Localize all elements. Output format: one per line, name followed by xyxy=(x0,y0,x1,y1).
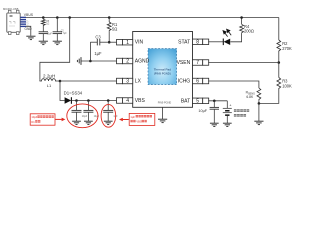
svg-text:10µF: 10µF xyxy=(198,109,207,113)
resistor R4 xyxy=(240,24,244,33)
node LX junction xyxy=(59,80,62,83)
wire rail to C2 xyxy=(56,18,58,32)
svg-text:1Ω: 1Ω xyxy=(46,24,49,26)
wire Rsense to sense node xyxy=(258,101,260,104)
svg-text:STAT: STAT xyxy=(178,39,190,45)
node VSEN junction xyxy=(278,61,281,64)
wire C3 left lead xyxy=(90,41,97,43)
svg-text:2.2µH: 2.2µH xyxy=(43,74,55,79)
svg-text:270K: 270K xyxy=(282,46,292,51)
wire rail corner down to R2 xyxy=(278,18,280,41)
wire C2 to ground xyxy=(56,34,58,41)
svg-text:VIN: VIN xyxy=(135,40,144,46)
svg-text:VBS: VBS xyxy=(135,98,146,104)
ground (C2) xyxy=(53,41,62,44)
resistor R5 (input) xyxy=(41,19,45,26)
svg-text:D1: D1 xyxy=(31,120,35,124)
diode D1 SS34 xyxy=(65,97,72,103)
pin 7 VSEN xyxy=(193,60,203,66)
ground (USB) xyxy=(26,36,35,39)
resistor R1 5ohm xyxy=(107,22,111,31)
wire capacitor C6 1uF to ground xyxy=(107,112,109,121)
pin 2 AGND xyxy=(117,58,123,64)
wire battery - to ground xyxy=(226,116,228,123)
svg-text:1: 1 xyxy=(126,40,129,46)
ground (AGND, sideways) xyxy=(77,57,81,65)
connector J1 inner marks xyxy=(10,15,13,17)
svg-text:+: + xyxy=(229,104,231,108)
wire rail to R4 xyxy=(241,18,243,25)
wire C1 to ground xyxy=(42,34,44,41)
wire USB GND to ground xyxy=(26,26,31,36)
svg-text:LX: LX xyxy=(135,79,142,85)
svg-text:200Ω: 200Ω xyxy=(244,28,254,33)
red arrow right box pointing left xyxy=(123,119,129,121)
wire to C7 xyxy=(213,101,215,107)
red ellipse around C4 C5 xyxy=(67,104,98,128)
capacitor C6 1uF xyxy=(103,110,113,112)
svg-text:2: 2 xyxy=(126,59,129,65)
junction rail/L1 column xyxy=(68,16,71,19)
wire to capacitor C5 10uF xyxy=(87,101,89,111)
svg-text:VSEN: VSEN xyxy=(177,60,191,66)
junction rail/R1 xyxy=(108,16,111,19)
wire R3 to sense node xyxy=(259,90,279,104)
svg-text:D1=SS34: D1=SS34 xyxy=(64,90,83,95)
wire rail to R1 xyxy=(108,18,110,23)
ground (C7) xyxy=(210,123,219,126)
ground (capacitor C6 1uF) xyxy=(104,121,113,124)
svg-text:8: 8 xyxy=(196,39,199,45)
connector J1 micro-USB body xyxy=(7,13,20,32)
wire R5 to C1 xyxy=(42,26,44,32)
junction capacitor C6 1uF xyxy=(107,99,110,102)
svg-text:L1: L1 xyxy=(47,83,52,88)
svg-text:3: 3 xyxy=(126,79,129,85)
wire rail to R5 xyxy=(42,18,44,20)
ground (battery) xyxy=(223,123,232,126)
svg-text:10µF: 10µF xyxy=(94,115,100,118)
pin 1 VIN xyxy=(117,39,123,45)
ground (C1) xyxy=(39,41,48,44)
wire LED to R4 xyxy=(230,34,241,42)
battery note text (CJK) xyxy=(234,109,237,112)
capacitor C4 10uF xyxy=(72,110,82,112)
wire capacitor C4 10uF to ground xyxy=(76,112,78,121)
LED D2 xyxy=(222,39,224,46)
wire C7 to ground xyxy=(213,109,215,123)
red note box: 1uF cap close to VBS pin xyxy=(129,113,155,125)
ground (capacitor C4 10uF) xyxy=(72,121,81,124)
svg-text:5: 5 xyxy=(196,98,199,104)
junction capacitor C4 10uF xyxy=(75,99,78,102)
pin 8 STAT xyxy=(193,39,203,45)
battery cells xyxy=(223,108,232,116)
wire AGND to pin2 xyxy=(81,60,117,62)
svg-text:VBS: VBS xyxy=(136,120,141,124)
svg-text:10µF: 10µF xyxy=(47,33,53,35)
capacitor C1 xyxy=(39,32,48,34)
pin 5 BAT xyxy=(193,98,203,104)
svg-text:6: 6 xyxy=(196,79,199,85)
resistor R3 100K xyxy=(277,78,281,90)
connector J1 pins (blue) xyxy=(20,17,26,18)
ground (sense) xyxy=(254,121,263,124)
resistor R2 270K xyxy=(277,40,281,52)
svg-text:4.7µF: 4.7µF xyxy=(61,33,68,35)
wire L1 to LX node xyxy=(57,80,60,82)
wire sense node to ground xyxy=(258,103,260,121)
wire IC PGND to ground xyxy=(162,107,164,119)
svg-text:4: 4 xyxy=(126,98,129,104)
svg-text:VBUS: VBUS xyxy=(24,13,34,17)
wire rail elbow to L1 xyxy=(40,18,70,80)
wire R2 to VSEN node xyxy=(278,52,280,63)
junction rail/C1 column xyxy=(42,16,45,19)
wire pin8 to LED xyxy=(208,41,223,43)
svg-text:C3: C3 xyxy=(95,34,101,39)
wire LX node down to D1 anode xyxy=(60,81,65,101)
capacitor C2 xyxy=(53,32,62,34)
wire BAT to battery + xyxy=(226,101,228,109)
svg-text:BAT: BAT xyxy=(181,98,190,104)
node VIN junction xyxy=(108,41,111,44)
wire R1 to VIN node xyxy=(108,31,110,42)
junction BAT/C7 xyxy=(213,100,216,103)
junction rail/C2 column xyxy=(56,16,59,19)
wire pin5 BAT rail xyxy=(208,100,227,102)
capacitor C7 10uF xyxy=(210,107,219,109)
resistor Rsense 6.8K xyxy=(257,88,261,101)
wire pin7 to VSEN node xyxy=(208,62,279,64)
wire to capacitor C6 1uF xyxy=(107,101,109,111)
svg-text:AGND: AGND xyxy=(135,59,150,65)
junction capacitor C5 10uF xyxy=(87,99,90,102)
wire C3 down to AGND net xyxy=(89,42,91,61)
svg-text:(PIN9 PGND): (PIN9 PGND) xyxy=(154,72,171,76)
svg-text:10µF: 10µF xyxy=(31,115,37,119)
connector J1 mounting pads xyxy=(8,10,11,13)
pin 6 ICHG xyxy=(193,78,203,84)
wire pin6 to Rsense xyxy=(208,81,259,88)
red arrow left box xyxy=(55,118,62,120)
junction AGND net xyxy=(89,60,92,63)
svg-text:ICHG: ICHG xyxy=(178,79,191,85)
svg-text:5Ω: 5Ω xyxy=(112,27,117,32)
svg-text:100K: 100K xyxy=(282,83,292,88)
svg-text:6.8K: 6.8K xyxy=(246,95,254,99)
svg-text:PIN9 PGND: PIN9 PGND xyxy=(158,102,172,105)
wire D1 cathode to pin4 / VBS rail xyxy=(72,100,117,102)
svg-text:10µF: 10µF xyxy=(82,115,88,118)
svg-text:1µF: 1µF xyxy=(130,115,135,119)
svg-text:7: 7 xyxy=(196,60,199,66)
wire LX node to pin3 xyxy=(60,80,117,82)
wire VBUS rail xyxy=(26,17,279,19)
inductor L1 2.2uH xyxy=(40,79,57,81)
ground (IC PGND) xyxy=(158,119,167,122)
red ellipse around C6 xyxy=(101,104,116,127)
junction rail/R4 xyxy=(240,16,243,19)
op-amp/charger IC U1 body xyxy=(133,32,193,108)
pin 4 VBS xyxy=(117,98,123,104)
wire C3 right lead xyxy=(100,41,109,43)
wire capacitor C5 10uF to ground xyxy=(87,112,89,121)
node sense junction xyxy=(258,102,261,105)
wire to capacitor C4 10uF xyxy=(76,101,78,111)
LED arrows xyxy=(223,29,231,36)
capacitor C5 10uF xyxy=(83,110,93,112)
svg-text:1µF: 1µF xyxy=(94,51,102,56)
red note box: 10uF caps close to D1 xyxy=(30,114,55,125)
wire VIN node to pin1 xyxy=(109,41,116,43)
wire VSEN node to R3 xyxy=(278,63,280,78)
thermal pad xyxy=(148,49,177,85)
ground (capacitor C5 10uF) xyxy=(84,121,93,124)
pin 3 LX xyxy=(117,78,123,84)
